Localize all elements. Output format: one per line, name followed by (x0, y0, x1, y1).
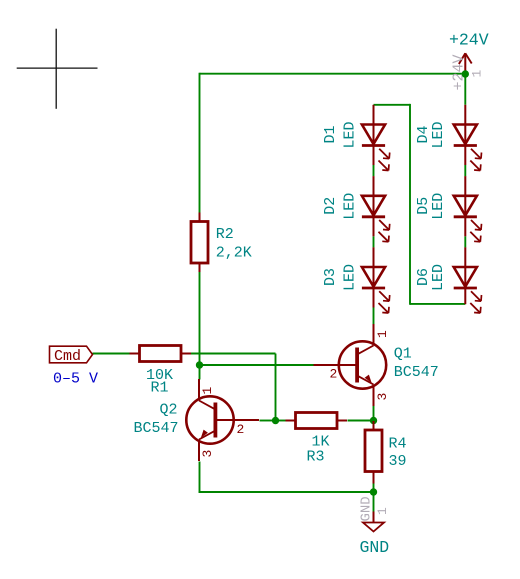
wire D1 top (374, 104, 411, 106)
label LED (D6) (430, 264, 447, 291)
transistor Q1 (314, 324, 387, 406)
label D4 (415, 125, 432, 143)
pin 1 (Q1 collector) (375, 330, 390, 338)
resistor R4 (365, 421, 382, 484)
wire Q2 emitter down (199, 462, 201, 493)
label R4 (389, 436, 407, 453)
label BC547 (Q1) (394, 364, 439, 381)
hidden pin number 1 (+24V) (470, 70, 485, 78)
label BC547 (Q2) (134, 420, 179, 437)
wire bottom rail (199, 491, 374, 493)
wire Q1 emitter to node (373, 406, 375, 422)
svg-text:LED: LED (430, 193, 447, 220)
svg-text:GND: GND (360, 538, 390, 557)
pin 3 (Q1 emitter) (375, 393, 390, 401)
label 0-5 V (53, 371, 98, 388)
pin 2 (Q2 base) (237, 422, 245, 437)
label LED (D1) (342, 121, 359, 148)
global label Cmd (50, 346, 93, 365)
label D3 (322, 268, 339, 286)
resistor R2 (191, 213, 208, 273)
label 2,2K (216, 244, 252, 261)
svg-text:3: 3 (200, 450, 215, 458)
label LED (D4) (430, 121, 447, 148)
svg-text:+24V: +24V (449, 31, 489, 50)
node R4/GND/bottom rail (370, 488, 377, 495)
label D6 (415, 268, 432, 286)
label +24V (449, 31, 489, 50)
node R1/Q2-base/R3 (272, 417, 279, 424)
svg-text:2: 2 (237, 422, 245, 437)
svg-text:LED: LED (430, 121, 447, 148)
wire R2 bottom to Q2 collector (199, 272, 201, 380)
pin 2 (Q1 base) (330, 367, 338, 382)
label Q1 (394, 346, 412, 363)
svg-text:D1: D1 (322, 125, 339, 143)
svg-text:1: 1 (375, 330, 390, 338)
svg-text:0–5 V: 0–5 V (53, 371, 98, 388)
wire D2-D3 (373, 236, 375, 247)
label 39 (389, 453, 407, 470)
wire Cmd to R1 (93, 353, 130, 355)
hidden pin name +24V (451, 54, 468, 90)
ground symbol (363, 512, 384, 532)
label R3 (307, 448, 325, 465)
node +24V junction (462, 70, 469, 77)
pin 1 (Q2 collector) (200, 387, 215, 395)
svg-text:Cmd: Cmd (54, 348, 81, 365)
svg-text:1: 1 (470, 70, 485, 78)
wire R1 to corner (190, 353, 276, 355)
hidden pin name GND (358, 496, 374, 521)
transistor Q2 (186, 379, 259, 461)
svg-text:39: 39 (389, 453, 407, 470)
LED D6 (454, 247, 482, 313)
svg-text:R2: R2 (216, 226, 234, 243)
svg-text:BC547: BC547 (394, 364, 439, 381)
svg-text:R1: R1 (151, 379, 169, 396)
wire R3 to node (348, 420, 374, 422)
wire D1-D2 (373, 165, 375, 176)
LED D4 (454, 105, 482, 171)
label 10K (146, 367, 173, 384)
wire node to GND (373, 492, 375, 512)
wire to D6 cathode (410, 303, 465, 305)
wire D4-D5 (464, 165, 466, 176)
label LED (D5) (430, 193, 447, 220)
hidden pin number 1 (GND) (375, 507, 390, 515)
svg-text:1: 1 (375, 507, 390, 515)
svg-text:BC547: BC547 (134, 420, 179, 437)
svg-text:LED: LED (342, 121, 359, 148)
crosshair marker (17, 29, 98, 109)
label Q2 (160, 402, 178, 419)
resistor R1 (130, 346, 192, 362)
svg-text:LED: LED (430, 264, 447, 291)
LED D1 (362, 105, 390, 171)
svg-text:R4: R4 (389, 436, 407, 453)
node Q1-emitter/R3/R4 (370, 417, 377, 424)
LED D3 (362, 247, 390, 313)
label R1 (151, 379, 169, 396)
label R2 (216, 226, 234, 243)
wire corner down to node (275, 354, 277, 421)
svg-text:LED: LED (342, 264, 359, 291)
wire D3 to Q1 collector (373, 308, 375, 325)
svg-text:1: 1 (200, 387, 215, 395)
svg-text:D3: D3 (322, 268, 339, 286)
svg-text:D2: D2 (322, 197, 339, 215)
wire R2 top (199, 73, 201, 213)
label D1 (322, 125, 339, 143)
wire D5-D6 (464, 236, 466, 247)
svg-text:Q2: Q2 (160, 402, 178, 419)
power symbol +24V (459, 53, 472, 74)
label D2 (322, 197, 339, 215)
svg-text:LED: LED (342, 193, 359, 220)
label GND (360, 538, 390, 557)
wire R4 bottom to node (373, 480, 375, 492)
svg-text:R3: R3 (307, 448, 325, 465)
svg-text:3: 3 (375, 393, 390, 401)
wire node to R3 (276, 420, 286, 422)
svg-text:GND: GND (358, 496, 374, 521)
LED D5 (454, 176, 482, 242)
wire +24V top rail (200, 73, 466, 75)
wire middle riser (409, 104, 411, 305)
svg-text:2: 2 (330, 367, 338, 382)
resistor R3 (286, 413, 348, 429)
label LED (D2) (342, 193, 359, 220)
svg-text:Q1: Q1 (394, 346, 412, 363)
label D5 (415, 197, 432, 215)
LED D2 (362, 176, 390, 242)
wire Q2 base to node (260, 420, 276, 422)
pin 3 (Q2 emitter) (200, 450, 215, 458)
label LED (D3) (342, 264, 359, 291)
label 1K (312, 433, 330, 450)
wire node to Q1 base (200, 364, 314, 366)
svg-text:2,2K: 2,2K (216, 244, 252, 261)
wire +24V to D4 (464, 74, 466, 105)
node R2/Q1-base/Q2-collector (196, 361, 203, 368)
